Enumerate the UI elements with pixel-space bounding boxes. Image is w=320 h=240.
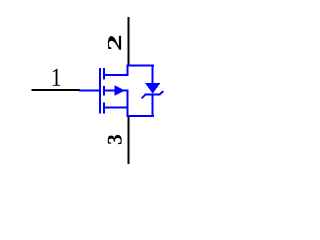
transistor Q1 [79, 65, 154, 117]
source stub [103, 107, 129, 109]
bulk-source link [123, 90, 129, 92]
wire pin 1 [31, 89, 80, 91]
diode cathode left tick [142, 95, 145, 98]
channel bottom segment [103, 103, 105, 114]
diode D1 [142, 65, 164, 117]
diode anode lead [152, 65, 154, 84]
pin number 1 [53, 69, 61, 86]
drain stub [103, 74, 129, 76]
bottom rail [127, 115, 154, 117]
pin number 2 [108, 36, 121, 50]
top rail [127, 65, 154, 67]
bulk stub [103, 90, 115, 92]
diode triangle [145, 83, 160, 93]
bulk arrow [114, 85, 124, 96]
diode cathode right tick [160, 91, 163, 94]
gate lead [79, 90, 100, 92]
diode cathode bar [145, 93, 161, 95]
channel top segment [103, 68, 105, 80]
wire pin 2 [127, 17, 129, 66]
pin number 3 [108, 135, 122, 144]
drain vertical [127, 65, 129, 76]
source vertical [127, 90, 129, 117]
diode cathode lead [152, 94, 154, 117]
wire pin 3 [127, 117, 129, 164]
gate bar [99, 68, 101, 114]
channel middle segment [103, 86, 105, 96]
